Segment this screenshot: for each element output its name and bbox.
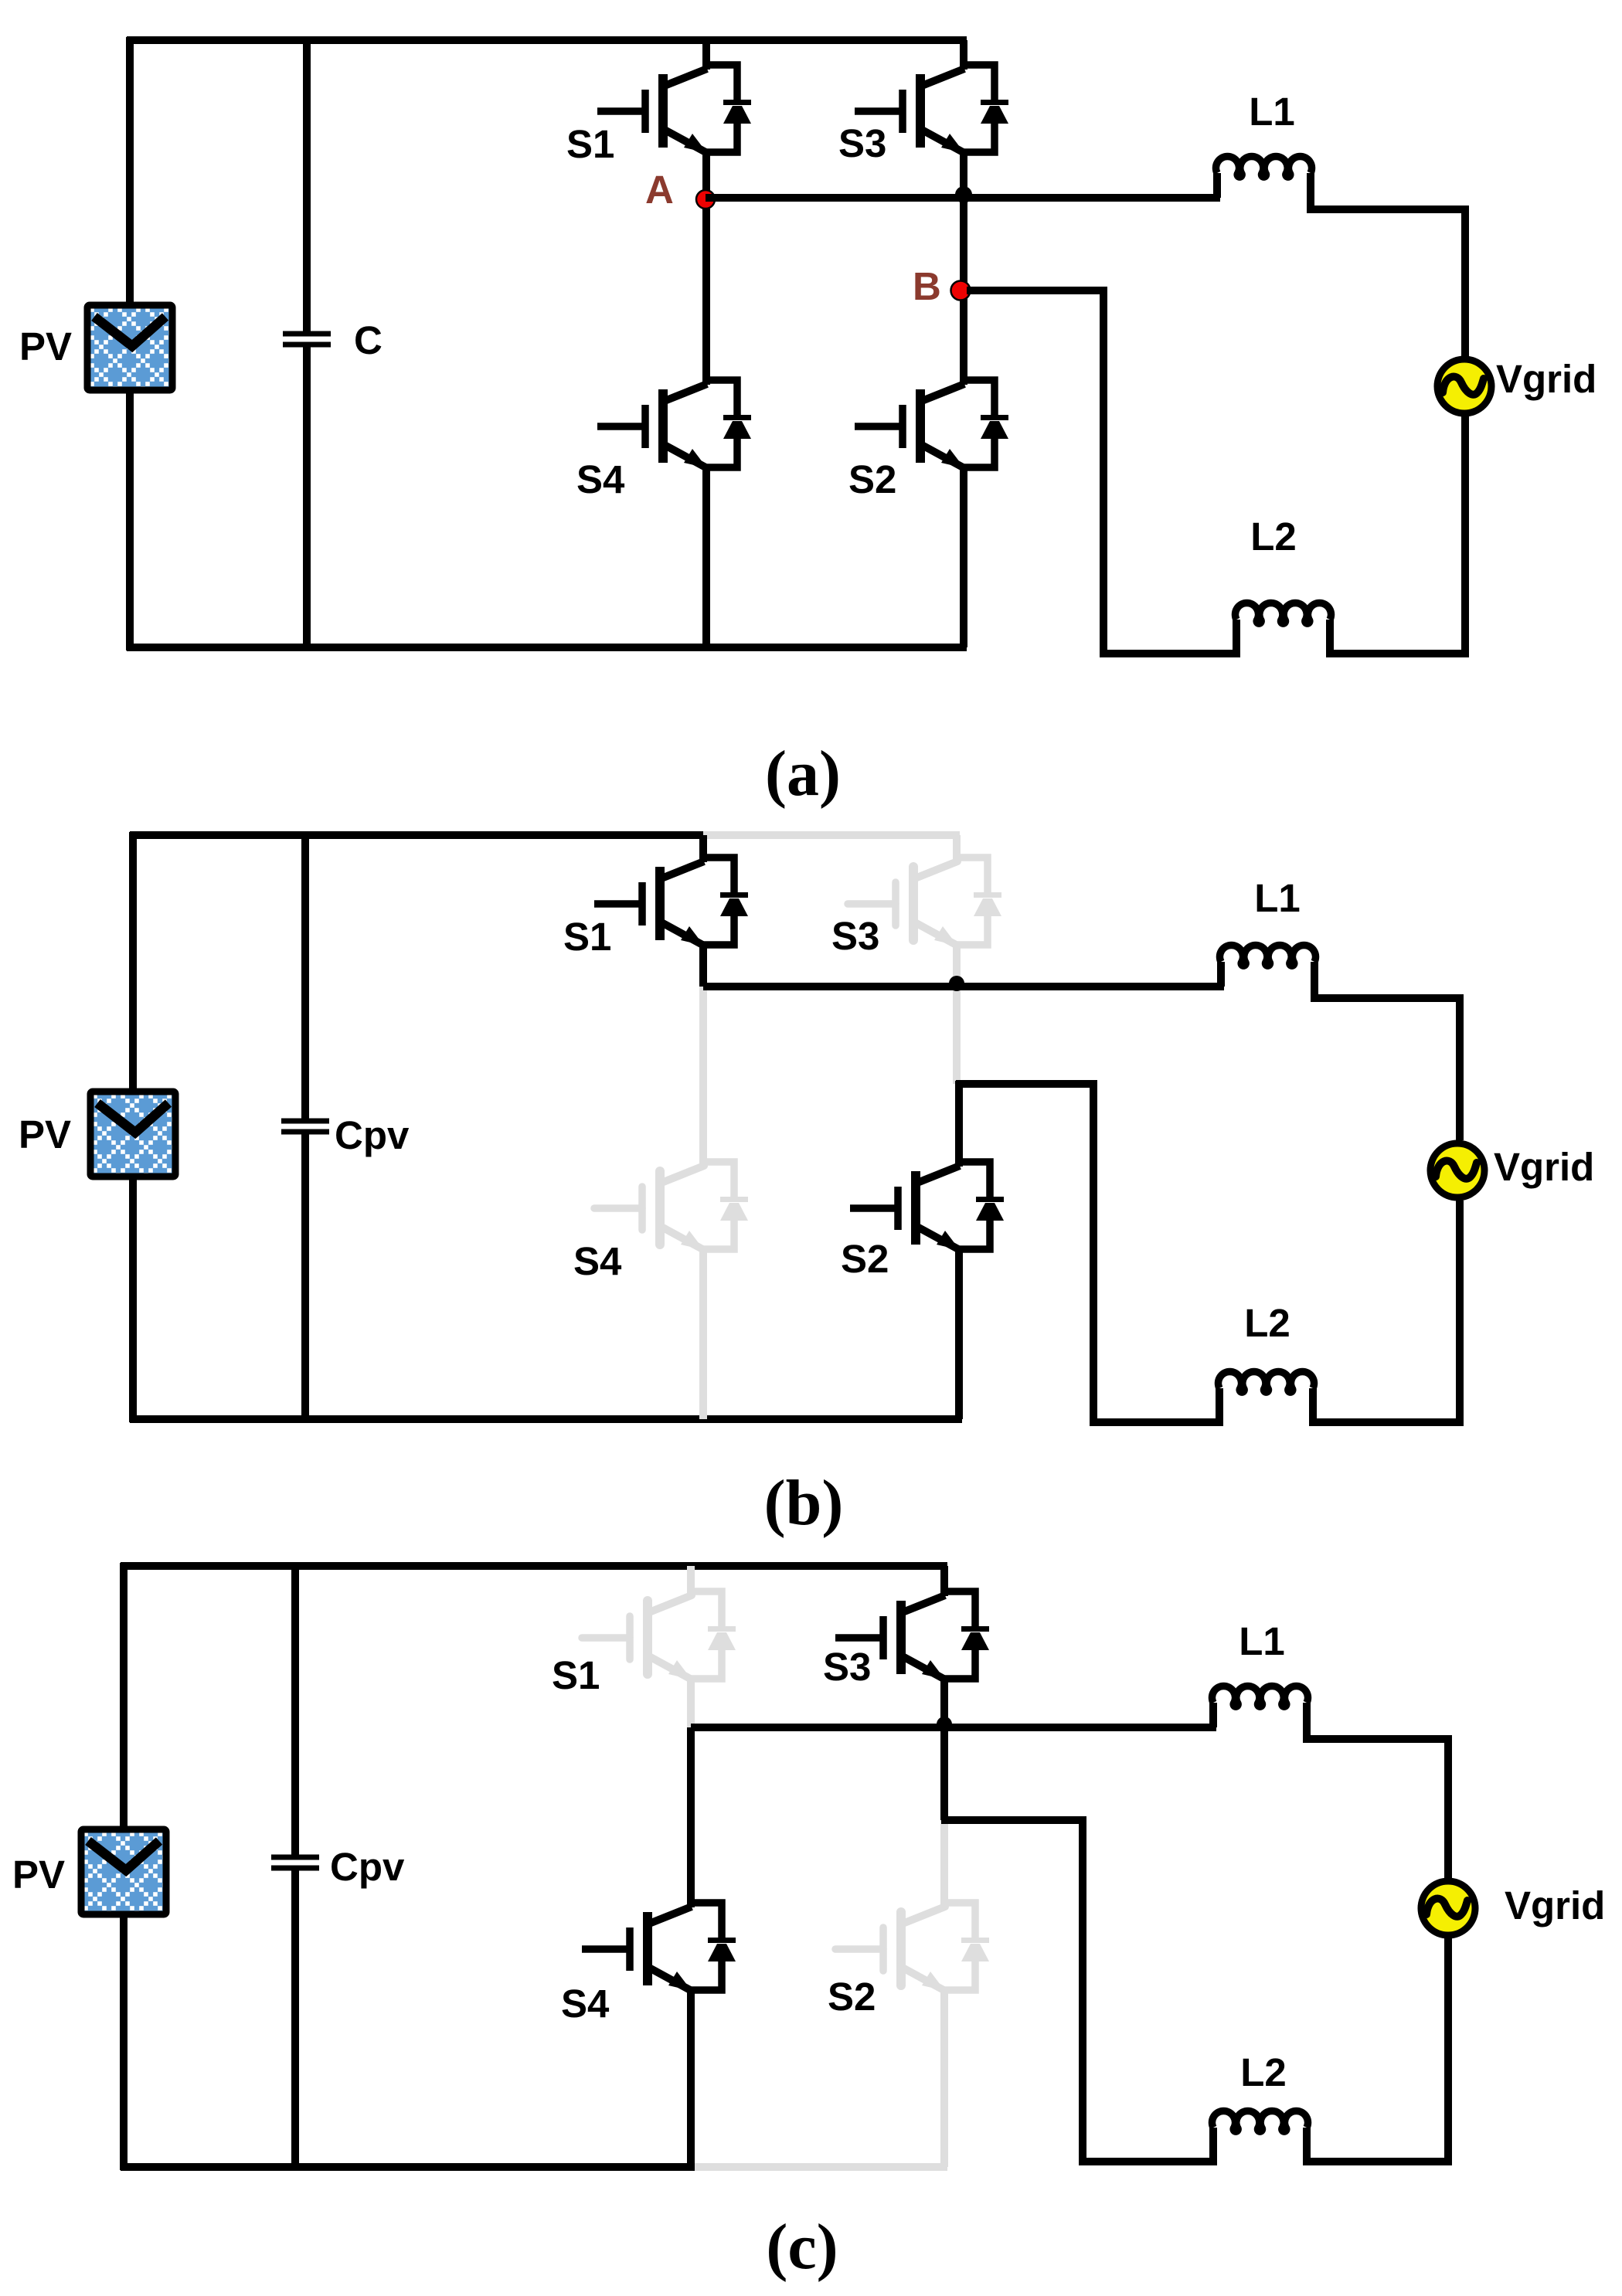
transistor S4 (a) (597, 380, 751, 468)
svg-text:S1: S1 (552, 1653, 600, 1697)
wire L2 to node B (a) (967, 290, 1236, 654)
junction dot under S3 (a) (955, 186, 972, 203)
transistor S1 (a) (597, 65, 751, 153)
PV module PV (b) (90, 1092, 175, 1177)
wire bottom bus grey (c) (695, 2163, 947, 2171)
svg-text:L2: L2 (1250, 515, 1297, 559)
inductor L1 (c) (1212, 1686, 1308, 1707)
node A marker (a) (696, 190, 715, 209)
svg-text:B: B (913, 264, 941, 308)
wire left vertical (a) (126, 37, 134, 650)
svg-text:S2: S2 (828, 1975, 876, 2019)
transistor S1 grey (c) (582, 1591, 736, 1680)
svg-text:S3: S3 (838, 121, 886, 165)
svg-text:L1: L1 (1254, 876, 1301, 920)
svg-text:PV: PV (19, 324, 72, 369)
svg-text:PV: PV (19, 1112, 71, 1156)
wire top bus (a) (127, 36, 967, 44)
svg-text:S1: S1 (566, 122, 614, 166)
wire Vgrid to L2 (a) (1330, 416, 1465, 654)
wire leg S3 grey (b) (953, 835, 961, 1084)
wire leg S4 grey (b) (699, 987, 707, 1419)
svg-text:L2: L2 (1240, 2050, 1287, 2094)
wire mid bus to L1 (c) (691, 1724, 1216, 1731)
wire left vertical (c) (120, 1563, 128, 2170)
wire capacitor branch (a) (303, 37, 311, 650)
junction dot under S3 (b) (949, 976, 964, 991)
wire L1 left riser (c) (1209, 1703, 1217, 1727)
svg-text:Cpv: Cpv (335, 1113, 410, 1157)
node B marker (a) (951, 281, 971, 301)
svg-text:L2: L2 (1244, 1301, 1290, 1345)
transistor S3 grey (b) (848, 858, 1001, 946)
wire Vgrid to L2 (c) (1307, 1938, 1448, 2162)
wire L2 to S2 collector (b) (956, 1084, 1219, 1422)
svg-text:S2: S2 (841, 1237, 889, 1281)
capacitor Cpv (c) (271, 1857, 319, 1868)
inductor L2 (a) (1236, 603, 1331, 623)
wire capacitor branch (b) (301, 832, 309, 1422)
wire leg S3-S2 (a) (960, 40, 967, 647)
wire L1 to Vgrid (c) (1307, 1703, 1448, 1878)
transistor S2 grey (c) (835, 1903, 989, 1991)
transistor S4 (c) (582, 1903, 736, 1991)
PV module PV (c) (81, 1829, 166, 1914)
transistor S4 grey (b) (594, 1162, 748, 1250)
inductor L1 (b) (1220, 945, 1316, 966)
wire node A to L1 (a) (706, 194, 1220, 202)
wire bottom bus (a) (127, 644, 967, 651)
svg-text:S4: S4 (573, 1239, 622, 1283)
wire L1 to Vgrid (b) (1314, 962, 1460, 1140)
AC source Vgrid (b) (1430, 1143, 1484, 1197)
wire top bus grey (b) (703, 831, 960, 839)
inductor L1 (a) (1216, 156, 1312, 177)
wire leg S4 (c) (687, 1727, 695, 2167)
wire leg S2 (b) (955, 1081, 963, 1419)
svg-text:(a): (a) (765, 738, 841, 810)
wire capacitor branch (c) (291, 1563, 299, 2170)
wire L1 left riser (b) (1217, 962, 1225, 987)
wire top bus black (b) (130, 831, 703, 839)
capacitor C (a) (283, 334, 331, 345)
wire leg S1-S4 (a) (702, 40, 710, 647)
junction dot under S3 (c) (937, 1717, 952, 1732)
svg-text:S3: S3 (823, 1645, 871, 1689)
wire leg S3 (c) (940, 1566, 948, 1820)
svg-text:S4: S4 (561, 1982, 610, 2026)
wire leg S2 grey (c) (940, 1820, 948, 2167)
svg-text:(c): (c) (766, 2211, 838, 2283)
svg-text:Vgrid: Vgrid (1494, 1145, 1594, 1189)
svg-text:Vgrid: Vgrid (1496, 357, 1596, 401)
wire top bus (c) (121, 1562, 947, 1570)
wire leg S1 (b) (699, 835, 707, 987)
svg-text:S1: S1 (563, 915, 611, 959)
svg-text:Vgrid: Vgrid (1505, 1883, 1605, 1927)
transistor S2 (b) (850, 1162, 1004, 1250)
wire L2 to node B (c) (941, 1820, 1213, 2162)
svg-text:L1: L1 (1249, 90, 1295, 134)
svg-text:A: A (645, 168, 674, 212)
svg-text:Cpv: Cpv (330, 1845, 405, 1889)
wire L1 to Vgrid (a) (1311, 173, 1465, 356)
svg-text:S4: S4 (576, 457, 625, 501)
inductor L2 (b) (1219, 1371, 1314, 1392)
svg-text:S2: S2 (848, 457, 896, 501)
transistor S1 (b) (594, 858, 748, 946)
wire Vgrid to L2 (b) (1313, 1201, 1460, 1422)
wire left vertical (b) (129, 832, 137, 1422)
PV module PV (a) (87, 305, 172, 390)
svg-text:S3: S3 (831, 914, 879, 958)
wire S1 emitter to L1 (b) (703, 983, 1224, 990)
wire L1 left riser (a) (1213, 173, 1221, 198)
AC source Vgrid (a) (1437, 359, 1491, 413)
transistor S3 (c) (835, 1591, 989, 1680)
wire leg S1 grey (c) (687, 1566, 695, 1727)
svg-text:PV: PV (12, 1853, 65, 1897)
wire bottom bus (b) (130, 1415, 962, 1423)
svg-text:C: C (354, 318, 383, 362)
svg-text:(b): (b) (764, 1467, 844, 1539)
inductor L2 (c) (1212, 2111, 1308, 2131)
capacitor Cpv (b) (281, 1121, 329, 1132)
svg-text:L1: L1 (1239, 1619, 1285, 1663)
transistor S3 (a) (855, 65, 1008, 153)
AC source Vgrid (c) (1421, 1881, 1475, 1935)
transistor S2 (a) (855, 380, 1008, 468)
wire bottom bus black (c) (121, 2163, 695, 2171)
